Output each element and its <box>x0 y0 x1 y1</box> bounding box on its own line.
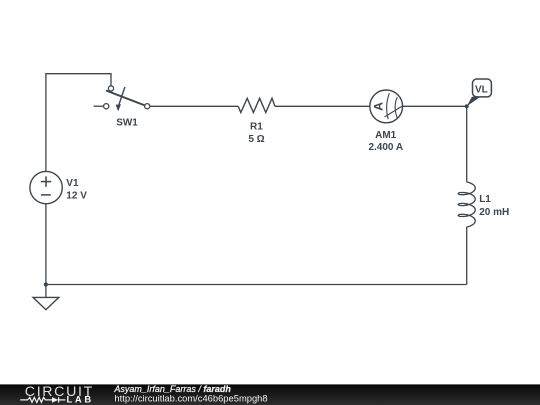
svg-text:VL: VL <box>475 85 488 96</box>
svg-text:LAB: LAB <box>67 394 94 405</box>
svg-text:R1: R1 <box>250 122 263 133</box>
svg-text:SW1: SW1 <box>116 118 138 129</box>
svg-text:AM1: AM1 <box>375 130 397 141</box>
svg-text:2.400 A: 2.400 A <box>368 142 403 153</box>
svg-text:A: A <box>372 102 386 111</box>
svg-text:12 V: 12 V <box>66 191 87 202</box>
svg-text:L1: L1 <box>479 194 491 205</box>
svg-text:20 mH: 20 mH <box>479 207 509 218</box>
svg-text:http://circuitlab.com/c46b6pe5: http://circuitlab.com/c46b6pe5mpgh8 <box>114 392 267 403</box>
svg-text:V1: V1 <box>66 178 79 189</box>
svg-text:5 Ω: 5 Ω <box>248 134 264 145</box>
